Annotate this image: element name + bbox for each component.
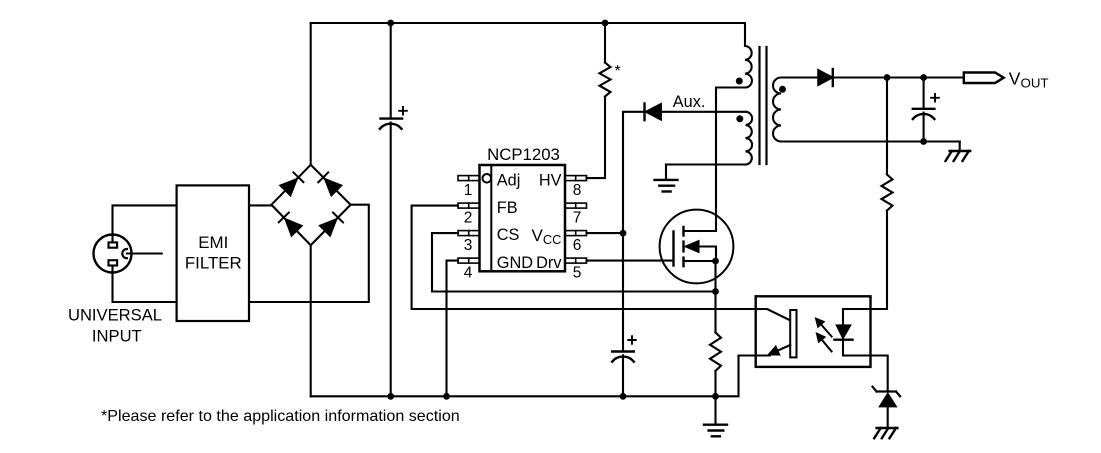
svg-text:FILTER: FILTER bbox=[185, 253, 242, 272]
wire plug bottom to EMI filter bbox=[113, 266, 177, 303]
ground chassis secondary bbox=[946, 142, 971, 162]
wire aux diode anode to aux winding bbox=[661, 111, 745, 113]
EMI filter box bbox=[177, 185, 249, 321]
node junction output cap bottom bbox=[920, 138, 927, 145]
MOSFET source wire bbox=[684, 260, 717, 262]
wire output diode to VOUT terminal bbox=[833, 76, 964, 78]
MOSFET gate bar bbox=[672, 232, 674, 266]
diode D6 output rectifier bbox=[818, 69, 833, 86]
wire aux winding bottom to ground bbox=[666, 163, 746, 165]
wire bridge bottom vertex to ground rail bbox=[310, 245, 312, 396]
opto phototransistor emitter with arrow bbox=[756, 345, 791, 356]
wire pin 6 VCC to VCC node bbox=[587, 232, 624, 234]
bridge diode D3 bottom-left bbox=[279, 213, 302, 236]
wire plug top to EMI filter bbox=[113, 205, 177, 242]
node junction sense resistor ground rail bbox=[712, 393, 719, 400]
svg-text:*Please refer to the applicati: *Please refer to the application informa… bbox=[101, 407, 460, 425]
transformer aux polarity dot bbox=[736, 115, 743, 122]
svg-text:UNIVERSAL: UNIVERSAL bbox=[68, 306, 162, 325]
wire primary ground rail bbox=[311, 356, 756, 397]
pin 1 stub Adj bbox=[458, 176, 480, 181]
node junction output cap top bbox=[920, 74, 927, 81]
node junction top rail bulk cap bbox=[387, 20, 394, 27]
bridge diode D2 top-right bbox=[318, 172, 341, 195]
pin 8 stub HV bbox=[565, 176, 587, 181]
label EMI FILTER bbox=[185, 233, 242, 272]
wire source node down to sense resistor bbox=[714, 261, 716, 333]
MOSFET body arrow bbox=[685, 241, 716, 261]
node junction top rail startup resistor bbox=[602, 20, 609, 27]
svg-text:INPUT: INPUT bbox=[92, 327, 142, 346]
zener diode Z1 bbox=[873, 387, 901, 428]
transformer T1 aux winding bbox=[746, 112, 753, 165]
op IC U1 NCP1203 body bbox=[480, 165, 566, 271]
resistor R1 HV startup bbox=[600, 63, 611, 97]
node junction VCC bbox=[620, 230, 627, 237]
wire top rail to transformer primary bbox=[311, 23, 745, 46]
svg-text:GND: GND bbox=[497, 254, 533, 272]
svg-text:Aux.: Aux. bbox=[673, 93, 706, 111]
transformer primary polarity dot bbox=[736, 78, 743, 85]
wire EMI filter bottom to bridge right node bbox=[249, 205, 369, 302]
optocoupler U2 box bbox=[756, 296, 871, 367]
svg-text:8: 8 bbox=[573, 182, 582, 199]
diode bridge diamond bbox=[271, 165, 350, 245]
wire EMI filter to bridge left node bbox=[249, 204, 271, 206]
AC plug (universal input connector) bbox=[94, 235, 132, 273]
svg-text:*: * bbox=[615, 63, 621, 80]
ground earth primary bbox=[704, 396, 727, 436]
label UNIVERSAL INPUT bbox=[68, 306, 162, 346]
svg-text:1: 1 bbox=[464, 182, 473, 199]
capacitor C3 output polarized bbox=[913, 78, 939, 142]
pin 4 stub GND bbox=[458, 258, 480, 263]
svg-text:FB: FB bbox=[497, 199, 518, 217]
transformer secondary polarity dot bbox=[779, 86, 786, 93]
node junction CS sense bbox=[712, 288, 719, 295]
svg-text:7: 7 bbox=[573, 210, 582, 227]
wire opto LED cathode to zener bbox=[871, 356, 888, 392]
bridge diode D1 top-left bbox=[280, 172, 303, 195]
resistor R2 current sense bbox=[710, 333, 721, 371]
transformer T1 primary winding bbox=[745, 46, 752, 88]
pin 6 stub VCC bbox=[565, 231, 587, 236]
svg-text:HV: HV bbox=[539, 171, 562, 189]
MOSFET channel dashes bbox=[682, 227, 684, 266]
svg-text:Adj: Adj bbox=[497, 171, 521, 189]
svg-text:6: 6 bbox=[573, 237, 582, 254]
wire pin 3 CS to MOSFET source sense node bbox=[432, 233, 716, 291]
svg-text:CS: CS bbox=[497, 226, 520, 244]
opto phototransistor collector bbox=[756, 309, 791, 320]
wire aux diode cathode to VCC node bbox=[623, 112, 645, 233]
node junction VCC cap ground rail bbox=[620, 393, 627, 400]
transformer T1 secondary winding bbox=[773, 78, 781, 142]
node junction GND rail bbox=[443, 393, 450, 400]
bulk capacitor C1 polarized bbox=[380, 23, 407, 396]
VOUT terminal symbol bbox=[964, 73, 1004, 84]
MOSFET Q1 circle bbox=[660, 210, 734, 284]
wire feedback resistor to opto LED anode bbox=[843, 211, 887, 310]
wire sense resistor to ground rail bbox=[714, 371, 716, 396]
pin 5 stub Drv bbox=[565, 258, 587, 263]
wire pin 8 HV to startup resistor bbox=[587, 97, 606, 179]
wire primary bottom to MOSFET drain bbox=[716, 88, 745, 232]
wire plug cord stub bbox=[127, 252, 162, 254]
wire startup resistor to top rail bbox=[604, 23, 606, 63]
pin 2 stub FB bbox=[458, 203, 480, 208]
pin 3 stub CS bbox=[458, 231, 480, 236]
node junction MOSFET source bbox=[712, 258, 719, 265]
wire pin 2 FB to optocoupler collector bbox=[412, 206, 756, 309]
wire gate to pin 5 Drv bbox=[587, 260, 674, 262]
wire feedback resistor from VOUT rail bbox=[886, 78, 888, 175]
opto LED bbox=[835, 309, 871, 356]
wire secondary return rail bbox=[781, 140, 960, 142]
bridge diode D4 bottom-right bbox=[320, 213, 343, 236]
node junction feedback resistor top bbox=[884, 74, 891, 81]
resistor R3 feedback bbox=[882, 175, 893, 211]
svg-text:NCP1203: NCP1203 bbox=[487, 145, 560, 164]
svg-text:EMI: EMI bbox=[198, 233, 228, 252]
svg-text:2: 2 bbox=[464, 210, 473, 227]
opto light arrow 1 bbox=[816, 318, 832, 336]
transformer core bbox=[760, 47, 767, 164]
svg-text:4: 4 bbox=[464, 265, 473, 282]
svg-text:Drv: Drv bbox=[536, 254, 562, 272]
svg-text:3: 3 bbox=[464, 237, 473, 254]
wire VCC node to VCC capacitor bbox=[622, 233, 624, 351]
diode D5 aux rectifier bbox=[645, 104, 662, 121]
node junction bulk cap ground rail bbox=[387, 393, 394, 400]
MOSFET drain wire bbox=[684, 230, 717, 232]
opto light arrow 2 bbox=[816, 333, 831, 351]
wire bridge top vertex to top rail bbox=[310, 23, 312, 165]
wire pin 4 GND to ground rail bbox=[447, 261, 459, 397]
wire secondary top to output diode bbox=[781, 76, 818, 78]
opto phototransistor base plate bbox=[790, 310, 796, 357]
ground earth aux bbox=[655, 165, 678, 192]
svg-text:5: 5 bbox=[573, 265, 582, 282]
pin 7 stub bbox=[565, 203, 587, 208]
ground chassis zener bbox=[874, 428, 897, 438]
capacitor C2 VCC polarized bbox=[612, 336, 636, 396]
